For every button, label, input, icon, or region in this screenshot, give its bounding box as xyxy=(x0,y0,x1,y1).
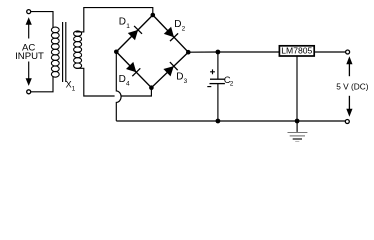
node: ground junction xyxy=(295,119,300,124)
svg-text:4: 4 xyxy=(126,80,130,87)
diode D3 xyxy=(163,62,177,76)
terminal: DC output + xyxy=(346,50,350,54)
svg-text:D: D xyxy=(119,74,126,85)
label: C2 xyxy=(224,75,234,88)
svg-text:2: 2 xyxy=(230,81,234,88)
diode D2 xyxy=(164,27,178,41)
node: bridge bottom vertex xyxy=(149,85,154,90)
arrow down (5V DC annotation) xyxy=(346,96,352,117)
svg-text:LM7805: LM7805 xyxy=(281,46,312,56)
transformer X1 primary winding xyxy=(51,27,59,77)
svg-text:D: D xyxy=(174,19,181,30)
diode D1 xyxy=(128,26,142,40)
arrow up (AC input annotation) xyxy=(26,17,32,38)
label: D4 xyxy=(119,74,130,88)
wire: secondary bottom to bridge bottom vertex (passes under hop) xyxy=(76,68,152,96)
terminal: AC input bottom xyxy=(27,90,31,94)
label: D2 xyxy=(174,19,185,33)
node: C2 bottom junction xyxy=(216,119,221,124)
label: X1 xyxy=(66,79,76,92)
svg-text:D: D xyxy=(119,17,126,28)
wire: bridge left vertex down, hop over secondary wire, to ground rail xyxy=(116,52,121,121)
wire: AC bottom terminal to transformer primary bottom xyxy=(31,77,53,92)
svg-text:1: 1 xyxy=(126,23,130,30)
capacitor C2 plates xyxy=(210,79,225,83)
transformer X1 secondary winding xyxy=(74,31,82,68)
label: 5 V (DC) xyxy=(336,81,369,91)
label: + polarity of C2 xyxy=(210,69,215,74)
transformer X1 core xyxy=(63,22,66,82)
wire: bridge right vertex (DC+) to regulator input xyxy=(188,51,279,53)
arrow down (AC input annotation) xyxy=(26,62,32,86)
wire: bridge diamond edges xyxy=(116,15,188,88)
node: bridge top vertex xyxy=(151,13,156,18)
terminal: AC input top xyxy=(27,10,31,14)
svg-text:2: 2 xyxy=(182,26,186,33)
wire: AC top terminal to transformer primary top xyxy=(31,12,53,28)
node: C2 top junction xyxy=(216,50,221,55)
wire: regulator output to DC+ terminal xyxy=(314,51,345,53)
svg-text:3: 3 xyxy=(184,78,188,85)
ground symbol xyxy=(288,121,308,141)
wire: regulator ground pin xyxy=(296,56,298,121)
node: bridge right vertex xyxy=(186,50,191,55)
wire: C2 top lead xyxy=(217,52,219,79)
voltage regulator U1 LM7805 xyxy=(279,46,314,56)
svg-text:D: D xyxy=(176,71,183,82)
node: bridge left vertex xyxy=(114,50,119,55)
wire: ground rail (bottom) xyxy=(116,120,345,122)
svg-text:INPUT: INPUT xyxy=(15,51,44,62)
label: AC INPUT xyxy=(15,42,44,61)
svg-text:1: 1 xyxy=(72,85,76,92)
label: D3 xyxy=(176,71,187,85)
arrow up (5V DC annotation) xyxy=(346,56,352,76)
svg-text:5 V (DC): 5 V (DC) xyxy=(336,81,369,91)
label: - polarity of C2 xyxy=(207,86,211,88)
diode D4 xyxy=(126,62,140,76)
label: D1 xyxy=(119,17,130,31)
terminal: DC output - xyxy=(345,120,349,124)
wire: secondary top to bridge top vertex xyxy=(76,8,153,32)
wire: C2 bottom lead xyxy=(217,84,219,121)
